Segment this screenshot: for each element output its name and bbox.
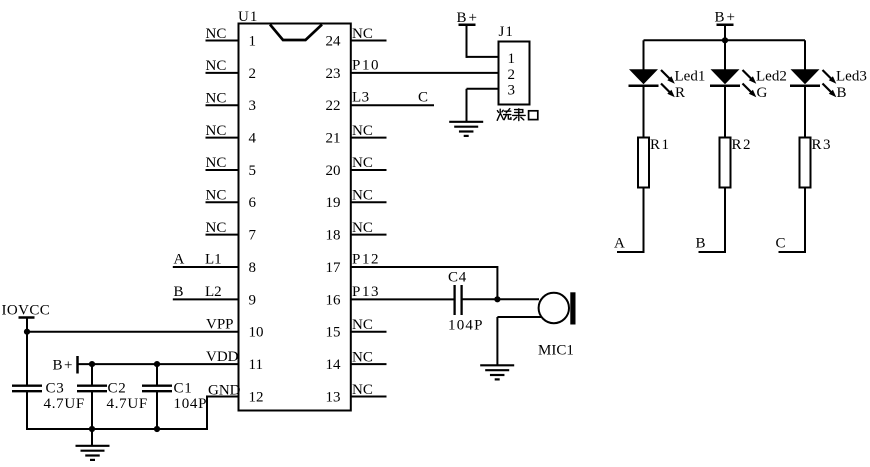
svg-text:1: 1 (249, 33, 257, 49)
svg-text:NC: NC (206, 123, 227, 139)
svg-text:13: 13 (326, 389, 341, 405)
svg-text:16: 16 (326, 292, 342, 308)
power B+ symbol above J1 (466, 25, 468, 58)
resistor R3 body (800, 138, 811, 188)
svg-text:B: B (174, 284, 184, 300)
J1 Chinese label 'programming port' (497, 109, 538, 121)
svg-text:11: 11 (249, 357, 263, 373)
GND net bottom rail (26, 428, 208, 430)
svg-text:A: A (174, 252, 185, 268)
junction C1 top on VDD wire (154, 361, 160, 367)
svg-text:NC: NC (352, 26, 373, 42)
svg-text:NC: NC (352, 382, 373, 398)
svg-text:NC: NC (352, 155, 373, 171)
IC U1 notch (270, 25, 322, 41)
LED Led2 arrow 2 (743, 84, 753, 94)
svg-text:P13: P13 (352, 284, 380, 300)
svg-text:G: G (757, 85, 768, 101)
svg-text:Led3: Led3 (836, 69, 867, 85)
J1 pin 1 wire to B+ (467, 56, 500, 58)
svg-text:4: 4 (249, 130, 257, 146)
pin 22 wire L3 (node C) (351, 104, 434, 106)
capacitor C1 bottom lead (156, 391, 158, 430)
svg-text:Led2: Led2 (756, 69, 787, 85)
svg-text:L1: L1 (205, 252, 222, 268)
svg-text:R3: R3 (812, 137, 833, 153)
pin 6 wire (NC) (206, 201, 240, 203)
svg-text:NC: NC (206, 220, 227, 236)
wire Led3 cathode to resistor R3 (804, 86, 806, 138)
svg-text:NC: NC (206, 188, 227, 204)
ground symbol below MIC1 (480, 364, 514, 366)
pin 8 wire (L1, node A) (173, 266, 240, 268)
svg-text:GND: GND (208, 382, 241, 398)
pin 20 wire (NC) (351, 169, 387, 171)
svg-text:R: R (675, 85, 685, 101)
ground symbol below J1 (449, 121, 483, 123)
LED Led3 triangle (791, 69, 820, 84)
capacitor C1 plates (142, 385, 172, 387)
pin 24 wire (NC) (351, 40, 387, 42)
svg-text:L2: L2 (205, 284, 222, 300)
svg-text:5: 5 (249, 163, 257, 179)
svg-text:NC: NC (352, 317, 373, 333)
pin 16 wire P13 to C4 (351, 298, 455, 300)
LED Led3 arrow 1 (823, 70, 833, 80)
microphone MIC1 bar electrode (570, 292, 575, 324)
svg-text:IOVCC: IOVCC (2, 302, 51, 318)
capacitor C2 plates (77, 385, 107, 387)
ground wire below rail at C2 (91, 429, 93, 446)
svg-text:MIC1: MIC1 (538, 343, 574, 359)
svg-text:B+: B+ (53, 358, 74, 374)
wire bus to Led3 anode (804, 40, 806, 70)
pin 11 wire VDD from B+ (78, 363, 240, 365)
svg-text:19: 19 (326, 195, 341, 211)
pin 14 wire (NC) (351, 363, 387, 365)
svg-text:NC: NC (352, 188, 373, 204)
capacitor C2 top lead (91, 364, 93, 385)
svg-text:18: 18 (326, 228, 341, 244)
svg-text:U1: U1 (238, 9, 258, 25)
wire bus to Led2 anode (724, 40, 726, 70)
microphone MIC1 lower wire to ground (497, 316, 541, 318)
pin 9 wire (L2, node B) (173, 298, 240, 300)
svg-text:22: 22 (326, 98, 341, 114)
GND net vertical drop (206, 395, 208, 429)
svg-text:2: 2 (249, 66, 257, 82)
pin 21 wire (NC) (351, 137, 387, 139)
svg-text:J1: J1 (499, 24, 514, 40)
svg-text:14: 14 (326, 357, 342, 373)
LED Led2 cathode bar (710, 85, 740, 88)
junction C2 top on VDD wire (89, 361, 95, 367)
svg-text:NC: NC (352, 220, 373, 236)
svg-text:C2: C2 (108, 380, 127, 396)
svg-text:Led1: Led1 (675, 69, 706, 85)
wire Led2 cathode to resistor R2 (724, 86, 726, 138)
svg-text:12: 12 (249, 389, 264, 405)
LED supply bus wire (644, 39, 806, 41)
svg-text:NC: NC (206, 155, 227, 171)
svg-text:4.7UF: 4.7UF (107, 396, 148, 412)
svg-text:10: 10 (249, 325, 264, 341)
pin 23 wire P10 to J1 pin 2 (351, 72, 499, 74)
svg-text:L3: L3 (352, 90, 370, 106)
junction IOVCC / VPP / C3 (24, 329, 30, 335)
pin 18 wire (NC) (351, 234, 387, 236)
svg-text:VDD: VDD (206, 349, 239, 365)
svg-text:C: C (418, 90, 428, 106)
wire resistor R3 to node C (779, 188, 806, 253)
svg-text:C: C (776, 236, 786, 252)
pin 5 wire (NC) (206, 169, 240, 171)
capacitor C4 plates (453, 285, 455, 315)
LED Led2 triangle (711, 69, 740, 84)
junction P12 / P13 / MIC1 (494, 296, 500, 302)
svg-text:C4: C4 (448, 270, 467, 286)
pin 4 wire (NC) (206, 137, 240, 139)
svg-text:C1: C1 (174, 380, 193, 396)
wire Led1 cathode to resistor R1 (643, 86, 645, 138)
pin 15 wire (NC) (351, 331, 387, 333)
pin 7 wire (NC) (206, 234, 240, 236)
pin 10 wire VPP from IOVCC rail (27, 331, 240, 333)
pin 1 wire (NC) (206, 40, 240, 42)
svg-text:104P: 104P (174, 396, 208, 412)
svg-text:B+: B+ (457, 10, 479, 26)
svg-text:21: 21 (326, 130, 341, 146)
svg-text:P10: P10 (352, 57, 380, 73)
svg-text:24: 24 (326, 33, 342, 49)
pin 13 wire (NC) (351, 395, 387, 397)
svg-text:NC: NC (206, 91, 227, 107)
capacitor C3 bottom lead (26, 391, 28, 430)
microphone MIC1 circle (539, 293, 569, 323)
svg-text:17: 17 (326, 260, 342, 276)
wire C4 to mic junction (462, 298, 539, 300)
battery B+ plate bar (76, 356, 79, 374)
LED Led3 arrow 2 (823, 84, 833, 94)
svg-text:1: 1 (508, 51, 516, 67)
capacitor C3 plates (12, 385, 42, 387)
pin 2 wire (NC) (206, 72, 240, 74)
IC U1 body (239, 24, 351, 411)
capacitor C2 bottom lead (91, 391, 93, 430)
ground symbol bottom left (76, 445, 110, 447)
power IOVCC bar symbol (19, 316, 35, 319)
wire bus to Led1 anode (643, 40, 645, 70)
svg-text:15: 15 (326, 325, 341, 341)
svg-text:2: 2 (508, 67, 516, 83)
LED Led1 cathode bar (629, 85, 659, 88)
ground wire below J1 pin 3 (466, 89, 468, 122)
svg-text:3: 3 (508, 82, 516, 98)
svg-text:VPP: VPP (206, 317, 234, 333)
junction B+ / bus / Led2 branch (722, 37, 728, 43)
svg-text:6: 6 (249, 195, 257, 211)
svg-text:R2: R2 (732, 137, 753, 153)
capacitor C1 top lead (156, 364, 158, 385)
pin 12 wire GND (207, 395, 240, 397)
wire resistor R2 to node B (699, 188, 726, 253)
power B+ bar symbol top right (717, 24, 734, 27)
junction C1 bottom on rail (154, 426, 160, 432)
svg-text:23: 23 (326, 66, 341, 82)
svg-text:NC: NC (206, 58, 227, 74)
svg-text:4.7UF: 4.7UF (44, 396, 85, 412)
pin 17 wire P12 with corner down to mic junction (351, 267, 498, 299)
junction C2 bottom on rail (89, 426, 95, 432)
svg-text:NC: NC (352, 349, 373, 365)
svg-text:7: 7 (249, 228, 257, 244)
pin 3 wire (NC) (206, 104, 240, 106)
LED Led1 arrow 2 (661, 84, 671, 94)
svg-text:NC: NC (206, 26, 227, 42)
svg-text:20: 20 (326, 163, 341, 179)
svg-text:104P: 104P (448, 318, 484, 334)
wire resistor R1 to node A (617, 188, 644, 253)
resistor R2 body (720, 138, 731, 188)
pin 19 wire (NC) (351, 201, 387, 203)
svg-text:3: 3 (249, 98, 257, 114)
svg-text:P12: P12 (352, 252, 380, 268)
svg-text:R1: R1 (650, 137, 671, 153)
LED Led3 cathode bar (790, 85, 820, 88)
LED Led1 triangle (629, 69, 658, 84)
LED Led2 arrow 1 (743, 70, 753, 80)
svg-text:B: B (837, 85, 847, 101)
capacitor C3 top lead (26, 332, 28, 385)
svg-text:B: B (696, 236, 706, 252)
svg-text:B+: B+ (715, 9, 737, 25)
connector J1 body (499, 42, 530, 105)
svg-text:NC: NC (352, 123, 373, 139)
resistor R1 body (638, 138, 649, 188)
LED Led1 arrow 1 (661, 70, 671, 80)
svg-text:A: A (614, 236, 625, 252)
svg-text:C3: C3 (46, 380, 65, 396)
J1 pin 3 wire to ground (467, 88, 500, 90)
svg-text:9: 9 (249, 292, 257, 308)
svg-text:8: 8 (249, 260, 257, 276)
